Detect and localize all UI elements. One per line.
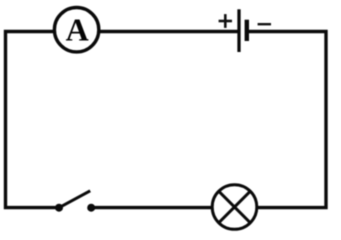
svg-text:A: A: [66, 11, 89, 47]
battery BT1 positive plate (long): [237, 9, 240, 52]
battery polarity label +: [219, 14, 232, 28]
wire: ammeter to battery positive plate: [99, 30, 238, 33]
ammeter U1 circle: [54, 8, 98, 52]
switch S1 lever (open): [59, 191, 90, 208]
wire: battery negative, right side down to lamp: [249, 32, 326, 208]
lamp L1 circle: [212, 185, 257, 230]
wire: switch right dot to lamp: [91, 206, 213, 209]
switch S1 left contact dot: [55, 204, 63, 212]
lamp L1 cross stroke 2: [219, 191, 251, 223]
battery BT1 negative plate (short thick): [245, 20, 249, 41]
wire: left loop (top-left corner, left side, to switch left dot): [6, 32, 60, 208]
battery polarity label −: [258, 23, 271, 25]
lamp L1 cross stroke 1: [219, 191, 251, 223]
switch S1 right contact dot: [87, 204, 95, 212]
